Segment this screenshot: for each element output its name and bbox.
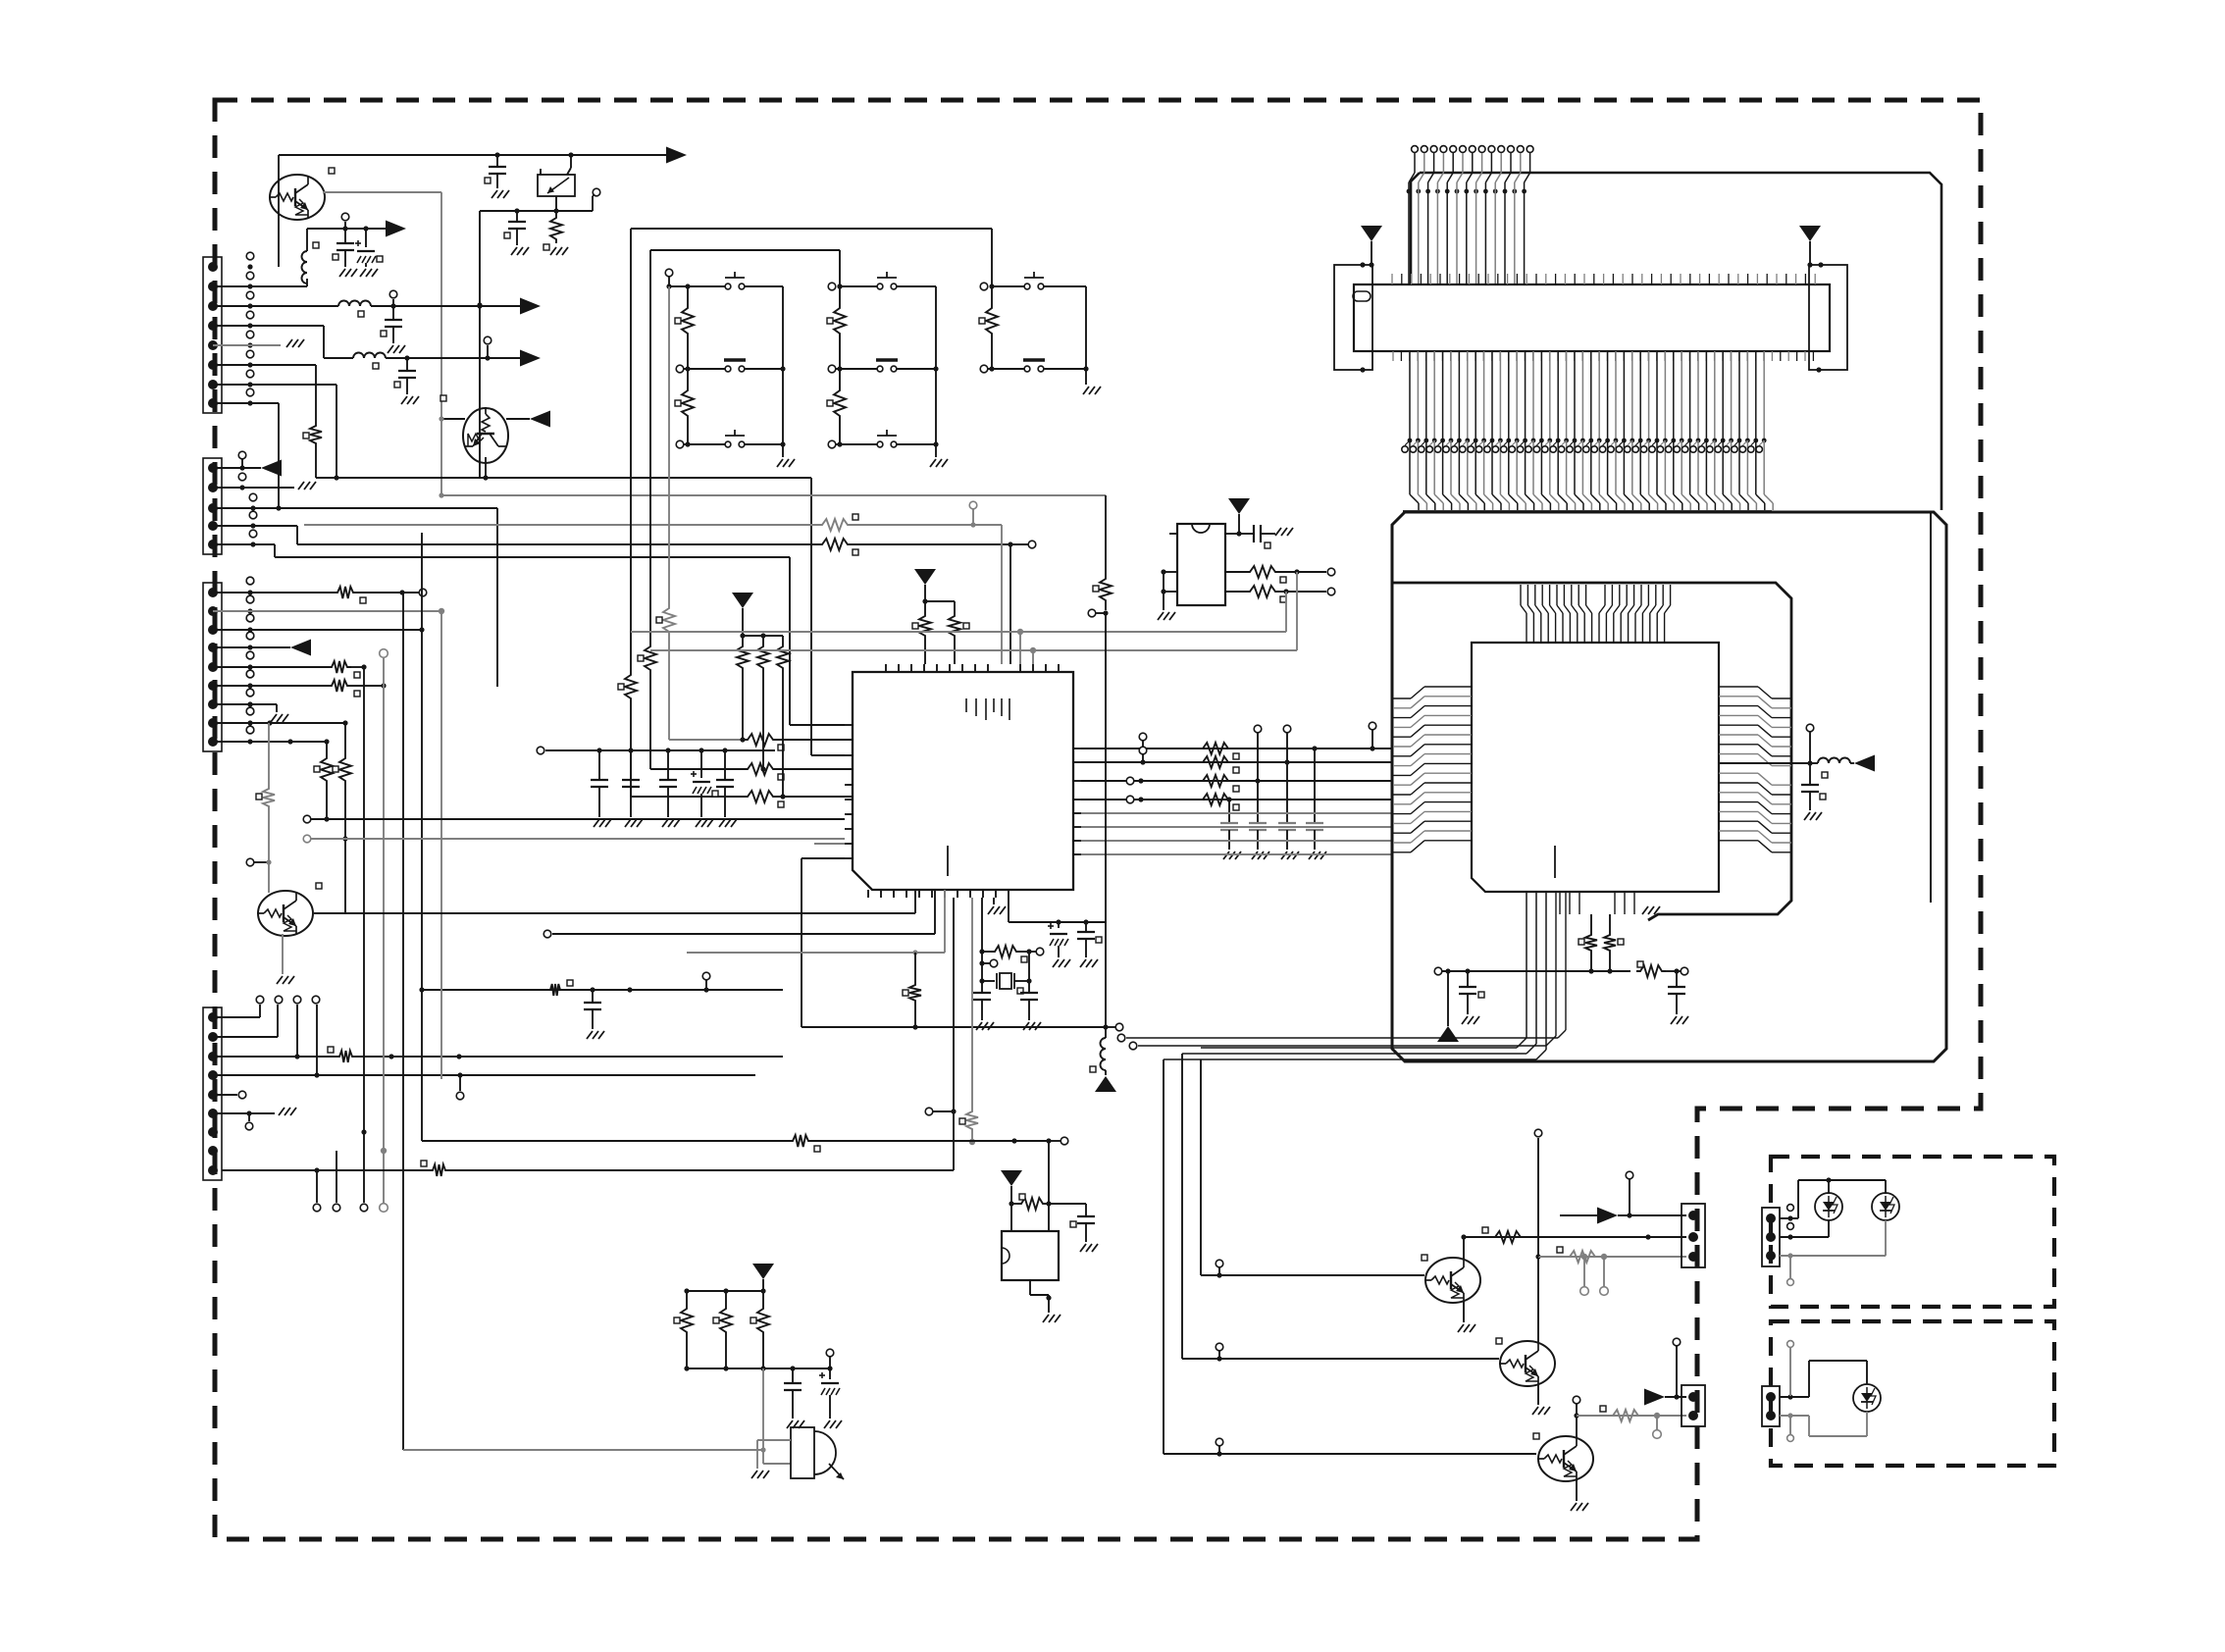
wire (CN4 pin6) — [213, 1112, 275, 1114]
connector CN4 (left, 9-pin) — [203, 1007, 222, 1180]
U1 left pin stubs — [845, 724, 853, 726]
U3 pin1 mark — [1554, 846, 1556, 878]
connector CN8 — [1762, 1386, 1780, 1426]
wire (U1 D6) — [1081, 840, 1392, 842]
resistor R27 — [681, 1305, 693, 1336]
keypad col1 right bus — [782, 286, 784, 444]
wire (bus x371) — [363, 667, 365, 1132]
wire (U1 D4) — [1081, 812, 1392, 814]
wire (L1 top node) — [307, 228, 397, 230]
LCD enclosure top box — [1420, 173, 1941, 510]
power flag (U2) — [1228, 498, 1250, 514]
wire (bus x411) — [402, 593, 404, 1450]
capacitor C24 — [1085, 1204, 1087, 1216]
arrow (row4) — [520, 350, 541, 367]
capacitor C27 — [592, 990, 594, 1003]
wire (bus x323b) — [316, 1170, 318, 1203]
wire (drv out row1) — [1464, 1236, 1686, 1238]
LED D2 — [1872, 1193, 1899, 1220]
test point — [487, 345, 489, 358]
crystal X1 — [982, 980, 995, 982]
resistor R33 — [818, 539, 852, 550]
board outline (main dashed border) — [215, 100, 1981, 1539]
keypad col3 right bus — [1085, 286, 1087, 369]
wire (CN3 pin6 row) — [213, 685, 328, 687]
resistor R28 — [720, 1305, 732, 1336]
resistor R29 — [757, 1305, 769, 1336]
wire (CN2 pin5 -> bus) — [213, 543, 275, 545]
wire (rail y1193) — [449, 1169, 954, 1171]
wire (Q2 emitter to rail) — [485, 457, 487, 478]
switch S8 — [980, 365, 988, 373]
inductor L3 row — [213, 325, 324, 327]
keypad column 3 — [631, 228, 992, 230]
LED D1 — [1815, 1193, 1842, 1220]
capacitor C5 — [392, 306, 394, 320]
keypad col3 resistor — [991, 286, 993, 304]
capacitor C19 — [1085, 922, 1087, 932]
arrow (CN3 pin4 in) — [213, 646, 290, 648]
wire (bus x391) — [383, 658, 385, 686]
U3 bottom stubs — [1559, 892, 1561, 914]
wire (row y1009) — [422, 989, 783, 991]
wire (CN1 pin7) — [213, 384, 336, 386]
resistor R21 — [1105, 495, 1107, 575]
wire (keypad bus x663) — [649, 250, 651, 643]
power flag (up, U3) — [1447, 971, 1449, 1026]
wire (Q4 collector) — [1463, 1237, 1465, 1260]
wire (U1 A10 run) — [311, 818, 845, 820]
power flag (LCD left) — [1361, 226, 1382, 241]
keypad column 1 — [665, 269, 673, 277]
connector CN3 (left, 9-pin) — [203, 583, 222, 751]
capacitor C9 — [667, 750, 669, 780]
U1 top pin stubs — [885, 664, 887, 672]
wire (drv row2) — [1182, 1358, 1499, 1360]
wire (CN4 pin4) — [213, 1074, 755, 1076]
wire (CN1 pin5 gnd) — [213, 344, 281, 346]
wire (keypad bus x682b) — [668, 286, 670, 604]
sub-board dashed box (LED board 1) — [1771, 1157, 2054, 1307]
arrow (aux out 1) — [1597, 1208, 1618, 1224]
transistor Q6 (digital) — [1537, 1436, 1593, 1481]
wire (VCC rail top-left) — [279, 154, 667, 156]
wire (U2 gnd side) — [1163, 572, 1164, 592]
power flag (LCD right) — [1799, 226, 1821, 241]
wire (U3 bias rail) — [1442, 970, 1630, 972]
resistor R1 — [555, 211, 557, 214]
wire (Q3 emitter gnd) — [282, 934, 284, 974]
LCD bar top ticks — [1391, 274, 1393, 284]
resistor R20 — [1246, 586, 1279, 597]
wire (U3 osc out) — [1719, 762, 1810, 764]
wire (Q6 collector) — [1576, 1416, 1578, 1438]
wire (CN3 pin2 row) — [213, 610, 441, 612]
U1 internal marks — [965, 698, 967, 712]
wire (U1 bot row 952) — [934, 890, 936, 934]
resistor R12 — [1199, 756, 1232, 768]
keypad col1 resistors — [687, 286, 689, 304]
U1 pin1 mark — [947, 846, 949, 876]
wire (U1 D1 row) — [1081, 761, 1392, 763]
test point — [1106, 1026, 1115, 1028]
wire (cap rail) — [545, 749, 775, 751]
wire (CN2 pin2 gnd) — [213, 487, 294, 489]
inductor L2 row — [213, 305, 338, 307]
wire (U3 seg inside) — [1555, 892, 1557, 1036]
capacitor C8 — [630, 750, 632, 780]
resistor R11 — [1199, 743, 1232, 754]
connector CN6 (2-pin to LED board) — [1682, 1385, 1705, 1426]
resistor R8 (row drive) — [744, 791, 777, 802]
wire (keypad bus x643) — [630, 229, 632, 671]
capacitor C11 — [724, 750, 726, 780]
LCD right bracket — [1809, 265, 1847, 370]
capacitor C2 — [516, 211, 518, 222]
capacitor C25 — [792, 1368, 794, 1383]
LCD bar key — [1353, 291, 1371, 301]
wire (LED bd2 loop k) — [1780, 1415, 1809, 1417]
capacitor C1 — [496, 155, 498, 167]
LCD driver inner box — [1393, 583, 1791, 920]
capacitor C7 — [598, 750, 600, 780]
resistor R2 — [310, 422, 322, 447]
wire (IR divider bottom) — [687, 1368, 830, 1369]
power flag (U1 VCC) — [914, 569, 936, 585]
switch S5 — [828, 365, 836, 373]
wire (LED bd2 loop a) — [1780, 1396, 1809, 1398]
wire (CN3 pin9 row) — [213, 741, 327, 743]
wire (U1 D3 row) — [1081, 799, 1392, 800]
pullup resistors — [742, 636, 744, 643]
LCD top flex lines — [1412, 146, 1419, 153]
CN8 test points — [1787, 1394, 1792, 1399]
wire (drv row3) — [1164, 1453, 1536, 1455]
wire (drv out row2 gray) — [1538, 1256, 1686, 1258]
resistor R7 (row drive) — [744, 763, 777, 775]
switch S6 — [828, 440, 836, 448]
wire (U4 in) — [1048, 1141, 1050, 1231]
U1 bottom pin stubs — [867, 890, 869, 898]
wire (LED2 k gray) — [1780, 1255, 1886, 1257]
capacitor C21 — [1809, 763, 1811, 785]
sub-board dashed box (LED board 2) — [1771, 1321, 2054, 1466]
trimmer box VR1 — [538, 175, 575, 196]
test point — [392, 299, 394, 306]
wire (long rail y487) — [316, 477, 811, 479]
resistor R30 — [1491, 1231, 1525, 1243]
ground (inner box) — [1642, 906, 1648, 914]
capacitor C12 — [1228, 800, 1230, 823]
wire (Q1 base line) — [323, 191, 441, 193]
wire (U1 xout drop) — [953, 898, 955, 1170]
wire (bus x343b) — [336, 1151, 337, 1203]
wire (U2 fb2) — [1285, 592, 1287, 632]
wire (U1 A11 run) — [311, 838, 845, 840]
U2 pin stubs — [1169, 533, 1177, 535]
wire (CN4 pin1) — [213, 1016, 260, 1018]
test point — [1806, 724, 1814, 732]
resistor R17 (on y1163) — [789, 1135, 812, 1147]
transistor Q2 (digital) — [463, 407, 508, 463]
wire (U1 D7) — [1081, 853, 1392, 855]
wire (gray rail y535) — [304, 524, 818, 526]
wire (CN1 pin8) — [213, 402, 279, 404]
wire (U3 seg lines) — [1526, 892, 1527, 1038]
power flag (U4) — [1001, 1170, 1022, 1186]
transistor Q3 (digital) — [257, 891, 313, 936]
capacitor C17 — [1028, 981, 1030, 993]
ground (Q4) — [1463, 1301, 1465, 1322]
wire (U1 bot row 931) — [914, 890, 916, 913]
wire (LED1 k) — [1780, 1236, 1829, 1238]
wire (CN3 pin8 row) — [213, 722, 345, 724]
resistor R25 — [1636, 965, 1666, 977]
wire (CN4 pin2) — [213, 1036, 278, 1038]
wire (bus x430) — [421, 533, 423, 1141]
transistor Q1 (digital) — [269, 175, 325, 220]
IC U4 (reset supervisor) — [1002, 1231, 1059, 1280]
transistor Q4 (digital) — [1424, 1258, 1480, 1303]
wire (U2 fb1) — [1296, 572, 1298, 650]
wire (long rail y1047) — [802, 1026, 1106, 1028]
resistor R4 — [326, 742, 328, 754]
wire (CN1 pin6) — [213, 364, 316, 366]
resistor R19 — [1246, 566, 1279, 578]
wire (U1 top riser1) — [1019, 632, 1021, 664]
U3 left pins — [1424, 686, 1472, 688]
resistor R16 — [429, 1164, 449, 1176]
ground (Q5) — [1537, 1384, 1539, 1405]
connector CN7 — [1762, 1208, 1780, 1266]
wire (U1 bot row 971) — [944, 890, 946, 953]
LED D3 — [1853, 1384, 1881, 1412]
connector CN2 (left, 5-pin) — [203, 458, 222, 554]
wire (LED bd1 anode rail) — [1780, 1217, 1798, 1219]
resistor R13 — [1199, 775, 1232, 787]
U3 right pins — [1719, 686, 1758, 688]
wire (vertical x489) — [479, 211, 481, 478]
resistor R26 — [1011, 1203, 1017, 1205]
power flag (keypad pullups) — [732, 593, 753, 608]
wire (U4 gnd pin) — [1029, 1280, 1031, 1295]
LCD driver board outer box — [1392, 512, 1946, 1061]
resistor R18 — [982, 951, 991, 953]
IC U1 (main microcontroller) — [853, 672, 1073, 890]
resistor R6 (row drive) — [744, 734, 777, 746]
arrow (row3) — [520, 298, 541, 315]
keypad col2 resistors — [839, 286, 841, 304]
capacitor C23 — [1676, 971, 1678, 987]
wire (drv bus 3) — [1163, 1059, 1164, 1454]
resistor R31 — [1566, 1251, 1599, 1263]
wire (CN4 pin5) — [213, 1094, 237, 1096]
wire (Q2 base tap) — [441, 418, 465, 420]
resistor R9 — [924, 601, 926, 612]
wire (vertical to Q5 col) — [1537, 1138, 1539, 1257]
LCD flex collector — [1403, 510, 1772, 512]
test points at CN1 — [247, 264, 252, 269]
wire (U4 vcc pin) — [1010, 1204, 1012, 1231]
test points above CN4 — [256, 996, 264, 1004]
test point stub — [1583, 1257, 1585, 1287]
power flag (IR) — [752, 1264, 774, 1279]
resistor R5 (Q3 coll) — [268, 723, 270, 785]
capacitor C6 — [406, 358, 408, 371]
wire (CN3 pin1 row) — [213, 592, 334, 594]
wire (drv out row3) — [1577, 1415, 1686, 1417]
wire (Q5 collector) — [1537, 1257, 1539, 1343]
IC U2 (regulator) — [1177, 524, 1225, 605]
capacitor C16 — [981, 981, 983, 993]
switch S1 — [725, 284, 731, 289]
IC U3 (LCD controller QFP) — [1472, 643, 1719, 892]
transistor Q5 (digital) — [1499, 1341, 1555, 1386]
capacitor C4 (electrolytic) — [365, 229, 367, 247]
resistor R3 — [344, 723, 346, 754]
capacitor C26 (electrolytic) — [829, 1368, 831, 1379]
wire (CN3 pin7 gnd) — [213, 703, 277, 705]
ground (U1 vss) — [993, 898, 995, 904]
wire (U1 D5) — [1081, 826, 1392, 828]
resistor R14 — [1199, 794, 1232, 805]
wire (U1 A13 run) — [802, 857, 845, 859]
wire (U1 D0 row) — [1081, 748, 1392, 749]
capacitor C18 (electrolytic) — [1058, 922, 1060, 928]
capacitor C13 — [1254, 725, 1262, 733]
inductor L4 — [1105, 1027, 1107, 1038]
wire (U1 top riser2) — [1032, 650, 1034, 664]
switch S4 — [877, 284, 883, 289]
arrow (aux out 2) — [1644, 1389, 1665, 1406]
capacitor C3 — [344, 229, 346, 243]
switch S7 — [1024, 284, 1030, 289]
U1 right pin stubs — [1073, 748, 1081, 749]
test point — [246, 858, 254, 866]
resistor R15 — [914, 953, 916, 981]
keypad col2 right bus — [935, 286, 937, 444]
arrow (CN2 pin1 in) — [213, 467, 261, 469]
LCD connector bar — [1354, 284, 1830, 351]
wire (CN3 pin5 row) — [213, 666, 328, 668]
wire (CN3 pin3 row) — [213, 629, 422, 631]
CN7 test points — [1787, 1215, 1792, 1220]
resistor R10 — [954, 601, 956, 612]
test point — [344, 222, 346, 229]
capacitor C22 — [1467, 971, 1469, 987]
capacitor C20 — [1239, 533, 1254, 535]
inductor L5 — [1810, 762, 1818, 764]
wire (U1 D2 row) — [1081, 780, 1392, 782]
wire (CN2 pin4 -> bus) — [213, 525, 297, 527]
capacitor C10 (electrolytic) — [700, 750, 702, 778]
U3 top pins — [1526, 613, 1527, 643]
LCD left bracket — [1334, 265, 1372, 370]
ground (Q6) — [1576, 1479, 1578, 1501]
wire (U1 A12 run) — [814, 843, 845, 845]
connector CN5 (3-pin to LED board) — [1682, 1204, 1705, 1267]
switch S2 — [676, 365, 684, 373]
wire (drv bus 1) — [1200, 1059, 1202, 1275]
wire (CN2 pin3 -> bus) — [213, 507, 497, 509]
LCD bar bottom ticks — [1392, 351, 1394, 361]
wire (IR divider top) — [687, 1290, 763, 1292]
inductor L1 — [213, 285, 307, 287]
wire (CN4 pin3 row) — [213, 1056, 336, 1058]
LCD box inner right edge — [1930, 512, 1932, 903]
wire (bus x450) — [440, 611, 442, 1079]
keypad column 2 — [650, 249, 840, 251]
IR receiver module — [791, 1427, 814, 1478]
switch S3 — [676, 440, 684, 448]
arrow (to power) — [1850, 762, 1854, 764]
connector CN1 (left, 8-pin) — [203, 257, 222, 413]
wire (U1 xin drop) — [971, 898, 973, 1108]
arrow (out L1) — [386, 221, 406, 237]
wire (long rail y505 gray) — [441, 494, 1106, 496]
resistor R23 — [1590, 914, 1592, 931]
wire (drv bus 2) — [1181, 1054, 1183, 1359]
power flag (up) — [1095, 1076, 1116, 1092]
resistor R32 — [1609, 1410, 1642, 1421]
LCD bottom flex lines — [1409, 351, 1411, 439]
wire (vdd rail) — [1008, 898, 1009, 922]
wire (VR1 bottom node) — [555, 196, 557, 211]
wire (drv row1) — [1201, 1274, 1424, 1276]
resistor R24 — [1609, 914, 1611, 931]
arrow (Q2 out) — [506, 418, 530, 420]
wire (IR signal) — [762, 1368, 764, 1464]
capacitor C15 — [1314, 749, 1316, 823]
test points at CN3 — [247, 590, 252, 594]
wire (xtal net) — [981, 898, 983, 981]
arrow (signal out top) — [666, 147, 687, 164]
capacitor C14 — [1283, 725, 1291, 733]
